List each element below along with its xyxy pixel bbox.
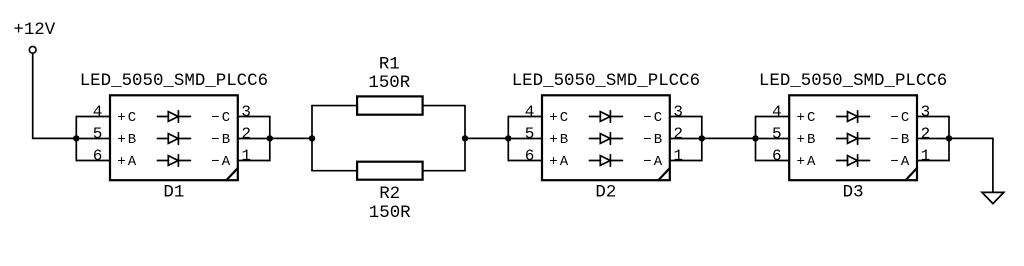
svg-text:4: 4 bbox=[772, 103, 782, 121]
svg-text:+A: +A bbox=[117, 154, 138, 170]
svg-text:+C: +C bbox=[117, 110, 138, 126]
svg-text:+B: +B bbox=[797, 132, 818, 148]
wire network right riser bbox=[464, 106, 466, 171]
wire to R1 left bbox=[312, 105, 357, 107]
junction at D1 left bus bbox=[73, 135, 79, 141]
svg-text:2: 2 bbox=[673, 125, 683, 143]
svg-text:5: 5 bbox=[525, 125, 535, 143]
svg-text:150R: 150R bbox=[369, 203, 411, 223]
svg-text:−C: −C bbox=[211, 110, 232, 126]
junction resistor network left node bbox=[309, 135, 315, 141]
svg-text:D3: D3 bbox=[843, 183, 864, 203]
svg-text:+C: +C bbox=[797, 110, 818, 126]
svg-text:1: 1 bbox=[921, 147, 931, 165]
D2 pin 5 (+B) bbox=[508, 125, 570, 148]
svg-text:−B: −B bbox=[890, 132, 911, 148]
D1 pin 1 (-A) bbox=[211, 147, 270, 170]
svg-text:−A: −A bbox=[643, 154, 664, 170]
svg-text:+A: +A bbox=[797, 154, 818, 170]
svg-text:−B: −B bbox=[643, 132, 664, 148]
LED module D1 bbox=[76, 71, 269, 203]
junction at D2 left bus bbox=[505, 135, 511, 141]
wire to R2 left bbox=[312, 170, 357, 172]
wire +12V down and right to D1 left bus bbox=[33, 53, 77, 138]
D2 pin 6 (+A) bbox=[508, 147, 570, 170]
LED module D3 bbox=[756, 71, 950, 203]
D2 pin 4 (+C) bbox=[508, 103, 570, 126]
svg-text:2: 2 bbox=[241, 125, 251, 143]
junction at D1 right bus bbox=[267, 135, 273, 141]
D3 right bus wire bbox=[948, 117, 950, 161]
D3 left bus wire bbox=[755, 117, 757, 161]
wire R2 right bbox=[423, 170, 465, 172]
D1 pin 5 (+B) bbox=[76, 125, 138, 148]
svg-text:+C: +C bbox=[549, 110, 570, 126]
svg-text:4: 4 bbox=[93, 103, 103, 121]
D1 left bus wire bbox=[75, 117, 77, 161]
resistor R2 bbox=[357, 162, 423, 224]
D1 internal LED diode row 1 bbox=[157, 111, 190, 123]
junction at D3 left bus bbox=[752, 135, 758, 141]
D3 pin 5 (+B) bbox=[756, 125, 818, 148]
D3 body outline bbox=[789, 95, 917, 180]
LED module D2 bbox=[508, 71, 702, 203]
wire R1 right bbox=[423, 105, 465, 107]
wire network left riser bbox=[311, 106, 313, 171]
wire D1 to resistor network bbox=[270, 137, 312, 139]
junction resistor network right node bbox=[462, 135, 468, 141]
svg-text:6: 6 bbox=[93, 147, 103, 165]
svg-text:−A: −A bbox=[211, 154, 232, 170]
svg-text:LED_5050_SMD_PLCC6: LED_5050_SMD_PLCC6 bbox=[759, 71, 947, 91]
svg-text:150R: 150R bbox=[368, 73, 410, 93]
D2 body outline bbox=[542, 95, 670, 180]
D3 internal LED diode row 2 bbox=[837, 133, 870, 145]
D3 internal LED diode row 3 bbox=[837, 155, 870, 167]
power symbol +12V bbox=[13, 20, 55, 53]
D3 pin 6 (+A) bbox=[756, 147, 818, 170]
D3 pin 2 (-B) bbox=[890, 125, 949, 148]
svg-text:+B: +B bbox=[549, 132, 570, 148]
D1 internal LED diode row 3 bbox=[157, 155, 190, 167]
wire D2 to D3 bbox=[702, 137, 756, 139]
svg-text:1: 1 bbox=[241, 147, 251, 165]
D3 internal LED diode row 1 bbox=[837, 111, 870, 123]
D2 right bus wire bbox=[701, 117, 703, 161]
svg-text:+B: +B bbox=[117, 132, 138, 148]
D3 pin 1 (-A) bbox=[890, 147, 949, 170]
wire D3 to ground bbox=[949, 138, 993, 192]
svg-text:6: 6 bbox=[525, 147, 535, 165]
D1 internal LED diode row 2 bbox=[157, 133, 190, 145]
svg-text:1: 1 bbox=[673, 147, 683, 165]
D2 internal LED diode row 3 bbox=[589, 155, 622, 167]
D1 pin 2 (-B) bbox=[211, 125, 270, 148]
D2 internal LED diode row 2 bbox=[589, 133, 622, 145]
D1 body outline bbox=[110, 95, 238, 180]
D3 pin 4 (+C) bbox=[756, 103, 818, 126]
svg-text:6: 6 bbox=[772, 147, 782, 165]
svg-text:−C: −C bbox=[890, 110, 911, 126]
svg-text:R1: R1 bbox=[379, 54, 400, 74]
ground symbol bbox=[982, 192, 1004, 203]
resistor R1 bbox=[357, 54, 423, 114]
svg-text:2: 2 bbox=[921, 125, 931, 143]
D2 internal LED diode row 1 bbox=[589, 111, 622, 123]
svg-text:−C: −C bbox=[643, 110, 664, 126]
svg-text:+A: +A bbox=[549, 154, 570, 170]
D1 pin 3 (-C) bbox=[211, 103, 270, 126]
svg-text:LED_5050_SMD_PLCC6: LED_5050_SMD_PLCC6 bbox=[512, 71, 700, 91]
junction at D2 right bus bbox=[699, 135, 705, 141]
svg-text:3: 3 bbox=[241, 103, 251, 121]
svg-text:−B: −B bbox=[211, 132, 232, 148]
D2 pin 2 (-B) bbox=[643, 125, 702, 148]
svg-text:+12V: +12V bbox=[13, 20, 55, 40]
svg-text:LED_5050_SMD_PLCC6: LED_5050_SMD_PLCC6 bbox=[80, 71, 268, 91]
svg-text:3: 3 bbox=[921, 103, 931, 121]
D1 pin 6 (+A) bbox=[76, 147, 138, 170]
svg-text:5: 5 bbox=[93, 125, 103, 143]
D3 pin 3 (-C) bbox=[890, 103, 949, 126]
D2 pin 1 (-A) bbox=[643, 147, 702, 170]
svg-text:D1: D1 bbox=[163, 183, 184, 203]
svg-text:5: 5 bbox=[772, 125, 782, 143]
svg-text:−A: −A bbox=[890, 154, 911, 170]
D2 pin 3 (-C) bbox=[643, 103, 702, 126]
junction at D3 right bus bbox=[946, 135, 952, 141]
D2 corner mark bbox=[658, 168, 670, 180]
D1 pin 4 (+C) bbox=[76, 103, 138, 126]
D1 corner mark bbox=[226, 168, 238, 180]
svg-text:3: 3 bbox=[673, 103, 683, 121]
svg-text:D2: D2 bbox=[595, 183, 616, 203]
D3 corner mark bbox=[906, 168, 918, 180]
svg-text:4: 4 bbox=[525, 103, 535, 121]
wire network to D2 bbox=[465, 137, 508, 139]
D1 right bus wire bbox=[269, 117, 271, 161]
D2 left bus wire bbox=[507, 117, 509, 161]
svg-text:R2: R2 bbox=[379, 184, 400, 204]
